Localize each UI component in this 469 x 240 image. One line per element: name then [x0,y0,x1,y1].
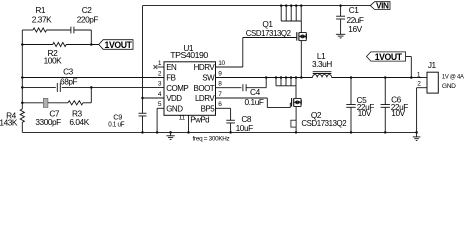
svg-text:3.3uH: 3.3uH [312,59,332,69]
svg-text:10V: 10V [391,108,405,118]
svg-text:LDRV: LDRV [195,94,215,103]
svg-text:0.1 uF: 0.1 uF [108,119,125,128]
svg-text:GND: GND [166,104,183,113]
svg-text:VDD: VDD [166,94,182,103]
svg-text:CSD17313Q2: CSD17313Q2 [301,118,347,128]
svg-text:CSD17313Q2: CSD17313Q2 [246,28,292,38]
svg-text:FB: FB [166,74,175,83]
svg-text:10: 10 [218,60,225,67]
svg-text:0.1uF: 0.1uF [245,97,264,107]
svg-text:SW: SW [202,74,215,83]
svg-text:EN: EN [166,63,177,72]
svg-text:C4: C4 [250,87,261,97]
svg-text:R1: R1 [35,5,46,15]
svg-text:2.37K: 2.37K [32,15,52,25]
svg-text:GND: GND [442,83,456,90]
svg-text:6.04K: 6.04K [69,117,89,127]
svg-text:freq = 300KHz: freq = 300KHz [193,136,230,143]
svg-text:PwPd: PwPd [190,115,209,124]
svg-text:J1: J1 [428,60,437,70]
svg-text:3300pF: 3300pF [35,117,61,127]
svg-text:C2: C2 [82,5,93,15]
svg-text:100K: 100K [44,56,62,66]
svg-text:1VOUT: 1VOUT [105,40,133,50]
svg-text:COMP: COMP [166,84,188,93]
svg-text:C1: C1 [349,5,360,15]
svg-text:10uF: 10uF [236,123,253,133]
svg-text:TPS40190: TPS40190 [170,50,208,60]
svg-text:VIN: VIN [376,1,389,10]
svg-text:220pF: 220pF [77,15,99,25]
svg-text:HDRV: HDRV [194,63,216,72]
svg-text:C3: C3 [63,67,74,77]
svg-text:1V @ 4A: 1V @ 4A [442,74,465,81]
svg-text:68pF: 68pF [60,76,77,86]
svg-text:10V: 10V [358,108,372,118]
svg-text:11: 11 [179,114,186,121]
svg-text:1VOUT: 1VOUT [375,52,403,62]
svg-text:BOOT: BOOT [194,84,215,93]
svg-text:143K: 143K [0,118,18,128]
svg-text:16V: 16V [348,24,362,34]
svg-text:BP5: BP5 [201,104,216,113]
